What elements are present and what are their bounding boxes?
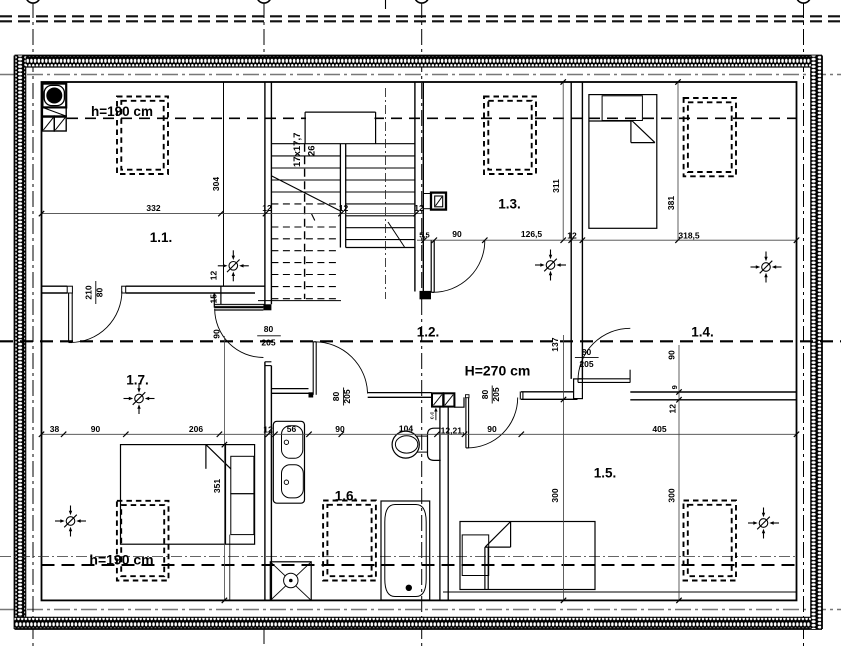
room 1.1 bottom wall upper face right [126, 285, 265, 287]
svg-text:1.1.: 1.1. [150, 230, 173, 245]
stair break stub [312, 214, 315, 221]
stair hall wall edge right [220, 286, 222, 304]
dimension line y=213.6 stairs [39, 211, 423, 216]
bed 1.7 side line [229, 535, 231, 601]
wall between 1.3 and 1.4 face a [570, 82, 572, 379]
stair landing top edge [305, 111, 376, 113]
svg-text:304: 304 [211, 177, 221, 191]
corridor south wall right jamb lines [520, 392, 523, 400]
ceiling light room 1.7 lower [55, 506, 86, 537]
svg-text:80: 80 [480, 390, 490, 400]
door label 80/205 room 1.5 rotated [480, 386, 501, 404]
svg-text:17x17,7: 17x17,7 [292, 133, 303, 167]
svg-text:12: 12 [209, 271, 219, 281]
roof window dashed rect D (room 1.7) [117, 501, 169, 581]
roof h=190 dashed line bottom [42, 564, 797, 566]
svg-text:H=270 cm: H=270 cm [465, 363, 531, 379]
grid bubble D [796, 0, 810, 3]
stair break diagonal [272, 176, 341, 211]
door label 80/205 room 1.4 [575, 347, 599, 369]
svg-text:300: 300 [667, 488, 677, 502]
wall between 1.4 and 1.5 face a [630, 391, 796, 393]
stairwell west wall bottom cap [263, 304, 271, 310]
room 1.1 bottom wall upper face left [42, 285, 68, 287]
wall between 1.4 and 1.5 face b [630, 399, 796, 401]
roof h=190 dashed line top [67, 117, 797, 119]
door 1.5 swing arc [467, 398, 517, 448]
door 1.3 leaf [431, 241, 434, 293]
exterior wall hatch left [15, 56, 26, 630]
svg-text:12: 12 [567, 231, 577, 241]
svg-text:26: 26 [307, 146, 318, 157]
svg-text:126,5: 126,5 [521, 229, 543, 239]
door 1.6 swing arc [315, 342, 368, 394]
chimney block [42, 84, 66, 108]
ceiling light room 1.1 hall [218, 250, 249, 281]
svg-text:1.7.: 1.7. [126, 373, 149, 388]
door 1.5 leaf [466, 398, 469, 448]
svg-text:38: 38 [50, 424, 60, 434]
ceiling light room 1.3 [535, 250, 566, 281]
svg-text:210: 210 [83, 285, 93, 299]
stair bottom edge line [258, 300, 341, 302]
svg-text:137: 137 [550, 337, 560, 351]
grid bubble C [415, 0, 429, 3]
stair walking line left flight [304, 144, 306, 299]
svg-text:1.3.: 1.3. [498, 197, 521, 212]
ridge dashed line H=270 [0, 340, 841, 342]
grid bubble A [26, 0, 40, 3]
stair walking line right dash-dot [385, 88, 387, 299]
room 1.1 divider thin line [223, 82, 225, 286]
stair left flight solid treads [271, 156, 340, 192]
grid axis vertical x=421.7 [421, 2, 423, 646]
svg-text:80: 80 [331, 392, 341, 402]
shower tray [270, 562, 311, 601]
grid axis vertical x=264 (bottom stub) [263, 628, 265, 646]
svg-text:332: 332 [146, 203, 160, 213]
door 1.3 swing arc [433, 241, 485, 293]
door 1.6 hinge jamb block [309, 392, 314, 397]
door 1.4 swing arc [578, 328, 630, 380]
exterior wall hatch top [15, 56, 823, 68]
stair landing mask [306, 113, 375, 143]
vertical dim line x=563.2 room 1.3 [561, 79, 566, 240]
bed room 1.4 [589, 95, 657, 229]
stair hall south wall line b [214, 305, 265, 307]
svg-text:80: 80 [582, 347, 592, 357]
bed room 1.7 with nightstand [121, 445, 255, 545]
svg-text:90: 90 [335, 424, 345, 434]
corridor south wall right segment face a [521, 391, 578, 393]
top boundary double dashed line [0, 16, 841, 21]
door 1.5 hinge jamb [466, 395, 470, 398]
double washbasin unit [273, 421, 304, 503]
chimney flue bottom pair [42, 116, 66, 131]
bed room 1.5 [460, 522, 595, 590]
stair hall wall edge left [213, 293, 215, 308]
svg-text:15: 15 [209, 294, 219, 304]
svg-text:12,21,: 12,21, [441, 426, 465, 436]
roof window dashed rect A (room 1.1) [117, 97, 168, 175]
svg-text:12: 12 [668, 404, 678, 414]
door 1.1 jamb left [67, 286, 72, 293]
bathroom north wall left segment face b [271, 392, 308, 394]
svg-text:205: 205 [342, 389, 352, 403]
svg-text:12: 12 [263, 424, 273, 434]
stair landing right edge [375, 112, 377, 144]
svg-text:h=190 cm: h=190 cm [91, 104, 153, 119]
svg-text:1.4.: 1.4. [691, 325, 714, 340]
grid axis vertical x=803.5 [803, 2, 805, 646]
stair center spine wall left line [339, 144, 341, 248]
exterior wall hatch right [811, 56, 822, 630]
ceiling light room 1.7 [124, 383, 155, 414]
stairwell east wall face inner [414, 82, 416, 292]
svg-text:c.c: c.c [429, 412, 435, 420]
svg-text:205: 205 [261, 338, 275, 348]
corridor south wall right segment face b [521, 398, 578, 400]
corridor south wall over bathroom face b [368, 396, 432, 398]
door 1.1 leaf [69, 293, 73, 343]
svg-text:1.6.: 1.6. [335, 489, 358, 504]
bathroom east wall face a [439, 407, 441, 601]
wall between 1.3 and 1.4 face b [581, 82, 583, 379]
roof window dashed rect C (room 1.4) [684, 98, 736, 176]
stair axis stub top [385, 0, 387, 9]
svg-text:56: 56 [287, 424, 297, 434]
door label 210/80 [83, 281, 104, 304]
svg-text:90: 90 [487, 424, 497, 434]
stair first tread full width [271, 143, 415, 145]
vertical dim line x=679 room 1.5 right [678, 345, 680, 600]
grid axis vertical x=264 (top stub) [263, 2, 265, 58]
door label 80/205 stair hall [257, 324, 281, 348]
door 1.5 frame step [455, 397, 464, 407]
roof window dashed rect B (room 1.3) [484, 97, 536, 175]
svg-text:104: 104 [399, 424, 413, 434]
grid axis horizontal top y=74.5 [0, 74, 841, 76]
svg-text:90: 90 [212, 329, 222, 339]
stair right flight slash [388, 222, 405, 247]
stairwell west wall face inner [270, 82, 272, 304]
ceiling light room 1.5 [748, 508, 779, 539]
duct box pair in corridor wall [432, 393, 454, 406]
door stair-hall leaf top [214, 307, 263, 309]
svg-text:318,5: 318,5 [678, 231, 700, 241]
svg-text:1.2.: 1.2. [417, 325, 440, 340]
svg-text:405: 405 [652, 424, 666, 434]
svg-text:90: 90 [452, 229, 462, 239]
svg-text:12: 12 [339, 203, 349, 213]
svg-text:205: 205 [491, 387, 501, 401]
dimension line y=434.3 bottom [39, 432, 799, 437]
grid axis vertical x=33 [32, 2, 34, 646]
thin dash-dot line bottom [0, 556, 797, 558]
svg-text:205: 205 [579, 359, 593, 369]
knee wall line room 1.5 [443, 591, 797, 593]
bathtub [381, 501, 430, 600]
exterior wall inner face [42, 82, 797, 600]
svg-text:5,5: 5,5 [419, 231, 429, 240]
door stair-hall leaf bottom [214, 309, 263, 311]
exterior wall hatch bottom [15, 617, 823, 629]
svg-text:h=190 cm: h=190 cm [89, 552, 153, 568]
door stair-hall swing arc [215, 309, 264, 358]
vertical dim line x=563.5 room 1.5 left [563, 335, 565, 600]
door 1.1 swing arc [70, 291, 122, 343]
vertical dim line x=678 room 1.4 [677, 82, 679, 240]
door 1.4 leaf [578, 379, 630, 383]
room 1.1 bottom wall lower face right [126, 292, 255, 294]
grid axis horizontal bottom y=613 [0, 609, 841, 611]
svg-text:311: 311 [551, 179, 561, 193]
door 1.4 hinge tick [629, 370, 631, 383]
svg-text:1.5.: 1.5. [594, 466, 617, 481]
vertical dim line x=224.4 room 1.7 [223, 336, 225, 600]
stairwell west wall face outer [264, 82, 266, 308]
svg-text:351: 351 [212, 479, 222, 493]
grid bubble B [257, 0, 271, 3]
bathroom east wall face b [447, 407, 449, 601]
svg-text:80: 80 [94, 288, 104, 298]
door label 80/205 bathroom rotated [331, 388, 352, 406]
stair hall south wall line a [214, 303, 265, 305]
stair center spine wall right line [345, 144, 347, 248]
stair right flight treads [346, 156, 415, 240]
svg-text:12: 12 [262, 203, 272, 213]
svg-text:12: 12 [414, 203, 424, 213]
stair right flight bottom edge [346, 247, 415, 249]
toilet [392, 428, 441, 460]
svg-text:381: 381 [666, 196, 676, 210]
ceiling light room 1.4 [751, 252, 782, 283]
stair duct box [424, 193, 446, 210]
svg-text:90: 90 [91, 424, 101, 434]
door 1.6 leaf [313, 342, 316, 395]
svg-text:9: 9 [670, 385, 679, 389]
stair left flight dashed treads [271, 204, 340, 299]
stair landing left edge [304, 112, 306, 144]
svg-text:206: 206 [189, 424, 203, 434]
svg-text:80: 80 [264, 324, 274, 334]
door 1.1 jamb right [122, 286, 126, 293]
door 1.4 left jamb step [574, 379, 583, 399]
stairwell east wall bottom jamb block [420, 291, 432, 299]
svg-text:300: 300 [550, 488, 560, 502]
roof window dashed rect E (room 1.6) [323, 501, 376, 581]
roof window dashed rect F (room 1.5) [684, 501, 737, 581]
room 1.1 bottom wall lower face left [42, 292, 68, 294]
bathroom west wall inner face [270, 366, 272, 601]
corridor south wall over bathroom face a [368, 392, 432, 394]
bathroom north wall left segment face a [271, 388, 308, 390]
svg-text:90: 90 [667, 350, 677, 360]
chimney flue middle [42, 107, 66, 116]
bathroom west wall top cap [265, 362, 272, 366]
duct arrow [434, 408, 437, 421]
bathroom west wall outer face [264, 362, 266, 601]
stairwell east wall face outer [422, 82, 424, 292]
dimension line y=240.2 right wing [417, 238, 799, 243]
